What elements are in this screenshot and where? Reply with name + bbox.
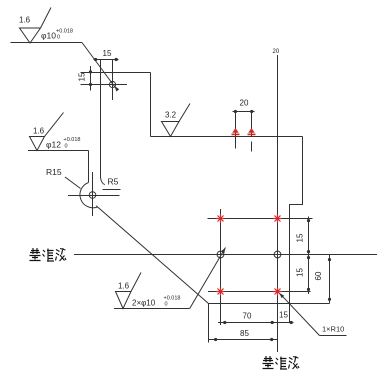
svg-text:0: 0 bbox=[65, 144, 68, 150]
hole 2 vertical centerline bbox=[92, 172, 94, 216]
2×φ10 leader arrowhead bbox=[221, 248, 225, 254]
svg-text:1.6: 1.6 bbox=[19, 16, 31, 25]
svg-text:+0.018: +0.018 bbox=[64, 137, 81, 143]
right edge extension (to bottom dim) bbox=[289, 304, 291, 323]
svg-text:15: 15 bbox=[296, 268, 305, 277]
dimension 15 (vertical, left of hole 1) bbox=[89, 66, 92, 91]
extension line right of 20 dim bbox=[251, 112, 253, 152]
svg-text:1.6: 1.6 bbox=[118, 282, 130, 291]
tab R5 fillet bbox=[101, 178, 105, 185]
svg-text:0: 0 bbox=[57, 35, 60, 41]
tab left edge vertical bbox=[88, 151, 90, 183]
svg-text:60: 60 bbox=[314, 271, 323, 280]
leader line horizontal under φ10 note bbox=[11, 42, 83, 44]
datum centerline (基准线) y=254.5 bbox=[74, 254, 377, 256]
2×φ10 leader diagonal to hole 3 bbox=[190, 248, 226, 309]
85 dim left extension bbox=[208, 304, 210, 343]
part diagonal edge bbox=[96, 206, 208, 304]
svg-text:2×φ10: 2×φ10 bbox=[132, 299, 156, 308]
datum label 基准线 (left) bbox=[30, 248, 67, 261]
red grip marker right (on 20 dim extension) bbox=[248, 128, 256, 135]
surface finish symbol (3.2) bbox=[162, 104, 191, 137]
hole 1 circle bbox=[109, 81, 115, 87]
dimension 20 (top) bbox=[233, 110, 255, 113]
svg-text:R15: R15 bbox=[46, 167, 62, 177]
datum label 基准线 (bottom) bbox=[263, 356, 300, 369]
hole 1 vertical centerline bbox=[112, 60, 114, 101]
extension line left of 20 dim bbox=[235, 112, 237, 149]
red asterisk top-right bbox=[273, 214, 282, 223]
part right edge with step bbox=[290, 137, 303, 304]
svg-text:15: 15 bbox=[296, 233, 305, 242]
part step vertical bbox=[150, 73, 152, 137]
R15 leader bbox=[65, 177, 81, 189]
svg-text:3.2: 3.2 bbox=[165, 111, 177, 120]
2×φ10 leader horizontal bbox=[114, 308, 190, 310]
part bottom edge bbox=[209, 303, 330, 305]
svg-text:85: 85 bbox=[240, 329, 249, 338]
hole 2 circle bbox=[89, 192, 96, 199]
hole 2 horizontal centerline bbox=[68, 195, 120, 197]
svg-text:15: 15 bbox=[103, 49, 112, 58]
svg-text:20: 20 bbox=[273, 49, 280, 55]
leader diagonal to hole 1 bbox=[82, 43, 118, 91]
svg-text:φ12: φ12 bbox=[46, 140, 61, 150]
hole 3 circle bbox=[217, 251, 224, 258]
red grip marker left (on 20 dim extension) bbox=[232, 128, 240, 135]
svg-text:R5: R5 bbox=[108, 177, 119, 187]
red asterisk top-left bbox=[216, 214, 225, 223]
hole 3 vertical centerline x=220.5 bbox=[220, 209, 222, 325]
svg-text:0: 0 bbox=[165, 302, 168, 308]
φ12 leader line horizontal bbox=[28, 150, 89, 152]
dimension 60 vertical bbox=[328, 255, 331, 304]
svg-text:15: 15 bbox=[279, 311, 288, 320]
dimension line 70 / 15 (bottom) bbox=[218, 321, 294, 324]
red asterisk bottom-right bbox=[273, 287, 282, 296]
surface finish symbol (1.6, φ12) bbox=[30, 113, 64, 151]
1×R10 leader arrowhead bbox=[279, 293, 284, 298]
hole 1 horizontal centerline bbox=[81, 84, 128, 86]
extension line above top edge bbox=[81, 72, 101, 74]
dimension 15 (horizontal, above hole 1) bbox=[94, 58, 119, 61]
hole pattern top line bbox=[208, 218, 313, 220]
part horizontal edge y=136.5 bbox=[151, 136, 303, 138]
surface finish symbol (1.6, top-left) bbox=[20, 8, 52, 44]
svg-text:15: 15 bbox=[78, 72, 87, 81]
svg-text:1.6: 1.6 bbox=[33, 127, 45, 136]
surface finish symbol (1.6, 2×φ10) bbox=[116, 273, 142, 309]
dimension 85 (bottom) bbox=[209, 338, 278, 341]
dimension 15/15 vertical line (right of hole pattern) bbox=[307, 217, 310, 295]
svg-text:70: 70 bbox=[243, 312, 252, 321]
part left edge vertical x=100.5 bbox=[100, 60, 102, 178]
svg-text:1×R10: 1×R10 bbox=[322, 325, 344, 334]
svg-text:20: 20 bbox=[240, 99, 249, 108]
svg-text:φ10: φ10 bbox=[41, 31, 56, 41]
leader arrowhead at hole 1 bbox=[115, 86, 120, 92]
hole pattern bottom line bbox=[208, 291, 311, 293]
red asterisk bottom-left bbox=[216, 287, 225, 296]
hole 4 circle bbox=[274, 251, 281, 258]
tab R15 arc bbox=[80, 183, 98, 208]
part top edge bbox=[101, 72, 151, 74]
1×R10 leader diagonal bbox=[282, 295, 320, 335]
R5 leader bbox=[103, 189, 121, 191]
long vertical centerline x=277.5 bbox=[277, 55, 279, 352]
1×R10 leader underline bbox=[320, 335, 347, 337]
